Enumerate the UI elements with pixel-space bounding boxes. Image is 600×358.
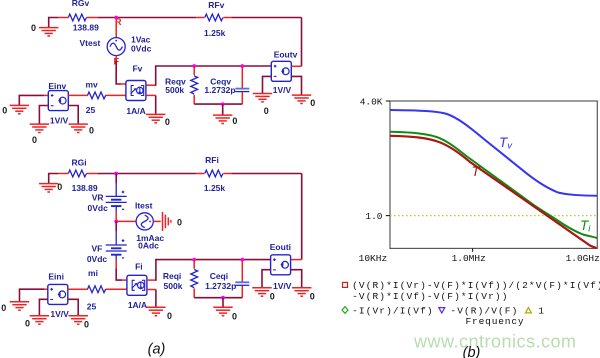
resistor RGi <box>58 157 98 193</box>
ground 0 below Einv left <box>30 106 49 146</box>
e-source Einv <box>44 81 69 125</box>
svg-text:0: 0 <box>89 125 94 135</box>
svg-text:-V(R)*I(Vf)-V(F)*I(Vr)): -V(R)*I(Vf)-V(F)*I(Vr)) <box>352 291 508 302</box>
svg-text:1.2732p: 1.2732p <box>205 281 236 291</box>
ground 0 at Eini + input <box>1 289 44 313</box>
svg-text:VR: VR <box>92 193 104 203</box>
node R junction <box>114 16 122 27</box>
ground 0 below Fv <box>146 95 170 126</box>
curve T red <box>390 136 597 248</box>
e-source Eini <box>44 272 69 320</box>
svg-text:1V/V: 1V/V <box>50 309 69 319</box>
svg-text:RGi: RGi <box>72 157 87 167</box>
svg-text:Fi: Fi <box>135 261 143 271</box>
dotted unity gain line <box>390 215 597 217</box>
svg-text:(V(R)*I(Vr)-V(F)*I(Vf))/(2*V(F: (V(R)*I(Vr)-V(F)*I(Vf))/(2*V(F)*I(Vf) <box>352 280 600 291</box>
svg-text:-I(Vr)/I(Vf): -I(Vr)/I(Vf) <box>352 305 434 316</box>
legend marker diamond (green) <box>342 307 348 314</box>
wire node R row <box>97 17 196 19</box>
svg-text:0: 0 <box>167 311 172 321</box>
wire Fv output up to bus <box>146 66 156 86</box>
y tick 4.0K <box>386 100 390 102</box>
ground 0 below Eini right <box>68 299 89 329</box>
y tick 1.0 <box>386 215 390 217</box>
ground 0 below Eoutv right <box>291 76 315 108</box>
wire RFv to feedback drop <box>231 17 301 19</box>
svg-text:0: 0 <box>232 312 237 322</box>
curve Ti green <box>390 132 597 238</box>
svg-text:500k: 500k <box>164 281 183 291</box>
svg-text:1V/V: 1V/V <box>50 115 69 125</box>
wire VF to Fi <box>116 260 127 281</box>
curve Tv blue <box>390 110 597 196</box>
svg-text:0: 0 <box>310 98 315 108</box>
wire Eoutv output to feedback <box>291 65 301 67</box>
legend marker triangle-down (violet) <box>439 308 445 313</box>
svg-text:138.89: 138.89 <box>73 23 99 33</box>
node junction RC bottom <box>221 296 225 300</box>
svg-text:0: 0 <box>84 320 89 330</box>
svg-text:25: 25 <box>86 105 96 115</box>
node junction Reqv top <box>192 64 196 68</box>
svg-text:0: 0 <box>25 318 30 328</box>
resistor Reqi <box>163 260 198 298</box>
svg-text:Fv: Fv <box>132 64 142 74</box>
ground 0 below Einv right <box>68 106 94 136</box>
svg-text:1.0MHz: 1.0MHz <box>452 253 486 264</box>
svg-text:1.0GHz: 1.0GHz <box>566 253 600 264</box>
svg-text:Ti: Ti <box>580 218 591 235</box>
svg-text:1.0: 1.0 <box>365 211 382 222</box>
resistor mv <box>68 79 126 115</box>
ground 0 below Eouti right <box>291 270 315 302</box>
wire RFi to feedback drop <box>231 173 301 175</box>
svg-text:1V/V: 1V/V <box>273 85 292 95</box>
ground 0 below Eouti left <box>252 270 275 302</box>
e-source Eoutv <box>271 49 297 95</box>
svg-text:Eini: Eini <box>48 272 64 282</box>
e-source Eouti <box>270 242 292 291</box>
svg-text:0: 0 <box>264 106 269 116</box>
wire RC bottom <box>194 297 242 299</box>
svg-text:(a): (a) <box>148 342 166 358</box>
ground 0 below RC <box>213 104 237 126</box>
svg-text:0: 0 <box>270 292 275 302</box>
plot box frame <box>390 101 597 248</box>
svg-text:0: 0 <box>32 135 37 145</box>
ground 0 at RGi input <box>39 174 62 193</box>
wire feedback vertical <box>301 174 303 260</box>
wire node row <box>97 173 196 175</box>
ground 0 at RGv input <box>31 18 58 37</box>
svg-text:Ceqi: Ceqi <box>210 271 228 281</box>
dc source VR 0Vdc <box>88 174 127 221</box>
svg-text:0: 0 <box>2 106 7 116</box>
svg-text:-V(R)/V(F): -V(R)/V(F) <box>450 305 518 316</box>
resistor RFv <box>196 0 231 38</box>
svg-text:0Vdc: 0Vdc <box>131 44 152 54</box>
resistor Reqv <box>165 66 198 104</box>
ground 0 below Fi <box>146 290 172 321</box>
capacitor Ceqv <box>204 66 249 104</box>
svg-text:0: 0 <box>31 23 36 33</box>
wire Fi output up to bus <box>147 260 156 281</box>
wire pin into Fv <box>121 83 126 85</box>
svg-text:RFi: RFi <box>205 155 219 165</box>
ground 0 below Eoutv left <box>253 76 272 116</box>
wire bus to Eouti <box>155 259 271 261</box>
node junction Ceqv top <box>240 64 244 68</box>
svg-text:0: 0 <box>232 116 237 126</box>
svg-text:www.cntronics.com: www.cntronics.com <box>413 331 577 351</box>
svg-text:1: 1 <box>538 305 545 316</box>
svg-text:mv: mv <box>85 79 98 89</box>
svg-text:1A/A: 1A/A <box>126 106 145 116</box>
svg-text:Frequency: Frequency <box>466 316 525 327</box>
f-source Fv <box>126 64 146 117</box>
svg-text:0Vdc: 0Vdc <box>87 254 108 264</box>
svg-text:RGv: RGv <box>72 0 90 8</box>
svg-text:1.2732p: 1.2732p <box>204 85 235 95</box>
svg-text:(b): (b) <box>463 345 481 358</box>
svg-text:Eouti: Eouti <box>270 242 291 252</box>
svg-text:1A/A: 1A/A <box>128 300 147 310</box>
svg-text:500k: 500k <box>165 85 184 95</box>
resistor mi <box>68 268 127 311</box>
node junction Itest <box>114 220 118 224</box>
svg-text:1V/V: 1V/V <box>273 281 292 291</box>
wire feedback vertical <box>301 18 303 67</box>
f-source Fi <box>127 261 147 310</box>
svg-text:mi: mi <box>88 268 98 278</box>
svg-text:0: 0 <box>57 182 62 192</box>
legend marker square (red) <box>343 282 348 287</box>
node junction Ceqi top <box>240 258 244 262</box>
svg-text:25: 25 <box>87 302 97 312</box>
resistor RGv <box>58 0 99 33</box>
svg-text:0: 0 <box>177 217 182 227</box>
svg-text:138.89: 138.89 <box>72 183 98 193</box>
x tick 1.0MHz <box>472 248 474 251</box>
wire bus to Eoutv <box>155 65 271 67</box>
svg-text:Vtest: Vtest <box>80 38 101 48</box>
ground 0 below Eini left <box>25 299 49 328</box>
svg-text:Einv: Einv <box>48 81 66 91</box>
svg-text:0Adc: 0Adc <box>138 241 159 251</box>
current source Itest 1mAac 0Adc <box>116 201 164 251</box>
capacitor Ceqi <box>205 260 249 298</box>
svg-text:Eoutv: Eoutv <box>274 49 298 59</box>
node junction RC bottom <box>221 102 225 106</box>
svg-text:10KHz: 10KHz <box>359 253 388 264</box>
node junction at VR <box>114 172 118 176</box>
svg-text:Reqi: Reqi <box>163 271 181 281</box>
svg-text:0: 0 <box>165 117 170 127</box>
ground 0 at Itest (rotated) <box>163 212 183 231</box>
wire Eouti output to feedback <box>291 259 302 261</box>
legend marker triangle-up (olive) <box>525 308 531 313</box>
ground 0 below RC <box>213 298 237 322</box>
svg-text:Itest: Itest <box>135 201 153 211</box>
ground 0 at Einv + input <box>2 95 44 115</box>
svg-text:VF: VF <box>91 244 102 254</box>
dc source VF 0Vdc <box>87 221 127 263</box>
svg-text:Tv: Tv <box>499 135 513 152</box>
svg-text:1.25k: 1.25k <box>204 28 226 38</box>
svg-text:0: 0 <box>1 303 6 313</box>
resistor RFi <box>196 155 231 193</box>
wire RC bottom <box>194 103 242 105</box>
svg-text:1.25k: 1.25k <box>204 183 226 193</box>
svg-text:0Vdc: 0Vdc <box>88 203 109 213</box>
voltage source Vtest 1Vac 0Vdc <box>80 18 152 61</box>
svg-text:4.0K: 4.0K <box>360 96 383 107</box>
node junction Reqi top <box>192 258 196 262</box>
svg-text:RFv: RFv <box>208 0 224 10</box>
svg-text:0: 0 <box>310 292 315 302</box>
wire Vtest to Fv <box>116 61 121 85</box>
